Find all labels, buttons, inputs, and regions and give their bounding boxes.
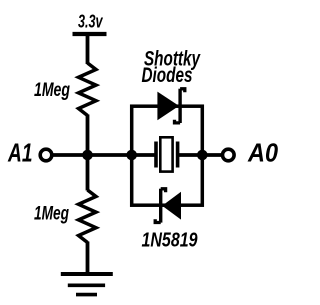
resistor R1 1Meg xyxy=(34,63,96,116)
wire R2 to ground xyxy=(86,242,90,275)
svg-text:1Meg: 1Meg xyxy=(34,79,70,101)
piezo/crystal X1 xyxy=(132,137,203,171)
svg-text:3.3v: 3.3v xyxy=(78,12,103,32)
junction dot box right xyxy=(197,150,208,161)
svg-text:Diodes: Diodes xyxy=(142,63,193,87)
diode box frame xyxy=(132,106,203,205)
svg-text:A1: A1 xyxy=(7,139,32,167)
junction dot box left xyxy=(126,150,137,161)
power rail 3.3v xyxy=(73,12,107,65)
wire A1 to node xyxy=(52,153,88,157)
wire box right to A0 xyxy=(202,153,222,157)
label Shottky Diodes xyxy=(142,46,201,87)
resistor R2 1Meg xyxy=(34,155,96,243)
terminal A0 xyxy=(223,139,279,167)
schottky diode D2 (bottom, anode right) xyxy=(155,189,181,223)
terminal A1 xyxy=(7,139,52,167)
svg-text:1N5819: 1N5819 xyxy=(142,230,199,252)
node junction dot xyxy=(82,150,93,161)
schottky diode D1 (top, anode left) xyxy=(157,89,184,123)
svg-text:A0: A0 xyxy=(247,139,278,167)
svg-text:1Meg: 1Meg xyxy=(34,203,69,225)
wire node to box left xyxy=(88,153,132,157)
ground xyxy=(61,274,113,295)
wire R1 to node xyxy=(86,115,90,156)
